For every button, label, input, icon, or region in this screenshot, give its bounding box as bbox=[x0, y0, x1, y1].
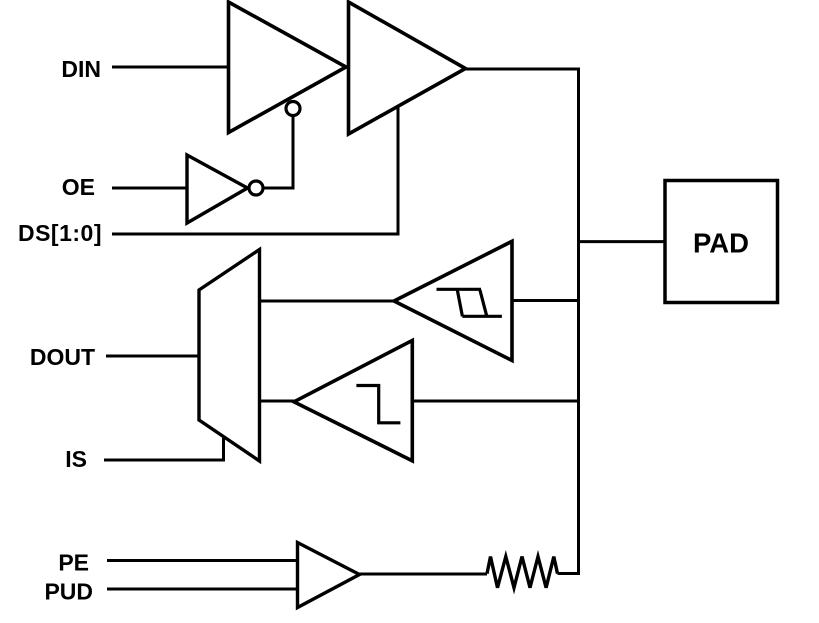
svg-text:PUD: PUD bbox=[44, 579, 93, 605]
svg-text:IS: IS bbox=[65, 446, 87, 472]
wire PAD net to U6 input bbox=[412, 400, 578, 403]
PAD box bbox=[665, 181, 778, 303]
svg-text:PAD: PAD bbox=[693, 228, 749, 259]
svg-text:DOUT: DOUT bbox=[30, 344, 95, 370]
output driver U3 bbox=[349, 2, 466, 134]
wire OE input bbox=[112, 187, 188, 190]
mux U4 bbox=[199, 250, 260, 462]
wire IS select input bbox=[104, 438, 224, 460]
svg-text:DS[1:0]: DS[1:0] bbox=[18, 220, 102, 246]
resistor R1 bbox=[487, 557, 558, 588]
wire PUD input bbox=[107, 588, 298, 591]
wire U2 output to U1 enable bbox=[265, 116, 294, 188]
wire U6 output to mux bbox=[260, 400, 296, 403]
wire DS[1:0] to output driver U3 bbox=[112, 105, 398, 234]
schmitt trigger U5 bbox=[394, 241, 512, 360]
schmitt trigger U6 bbox=[294, 340, 412, 460]
wire U7 output to resistor bbox=[358, 573, 487, 576]
svg-text:OE: OE bbox=[62, 174, 95, 200]
wire U5 output to mux bbox=[260, 300, 396, 303]
svg-text:DIN: DIN bbox=[61, 56, 101, 82]
wire resistor to PAD net bbox=[558, 572, 581, 575]
wire DOUT output bbox=[106, 355, 199, 358]
inverter U2 output bubble bbox=[249, 181, 263, 195]
wire PAD net to PAD box bbox=[579, 240, 666, 243]
svg-text:PE: PE bbox=[58, 550, 89, 576]
wire PAD net to U5 input bbox=[512, 299, 579, 302]
wire U3 output to PAD net (trunk) bbox=[464, 69, 579, 574]
buffer U1 tri-state pre-driver bbox=[229, 2, 347, 133]
wire DIN input bbox=[112, 66, 230, 69]
step symbol in U6 bbox=[356, 386, 400, 423]
wire PE input bbox=[107, 559, 298, 562]
hysteresis symbol in U5 bbox=[437, 289, 502, 316]
enable bubble on U1 bbox=[286, 102, 300, 116]
inverter U2 bbox=[187, 155, 248, 223]
buffer U7 pull control bbox=[298, 543, 360, 608]
